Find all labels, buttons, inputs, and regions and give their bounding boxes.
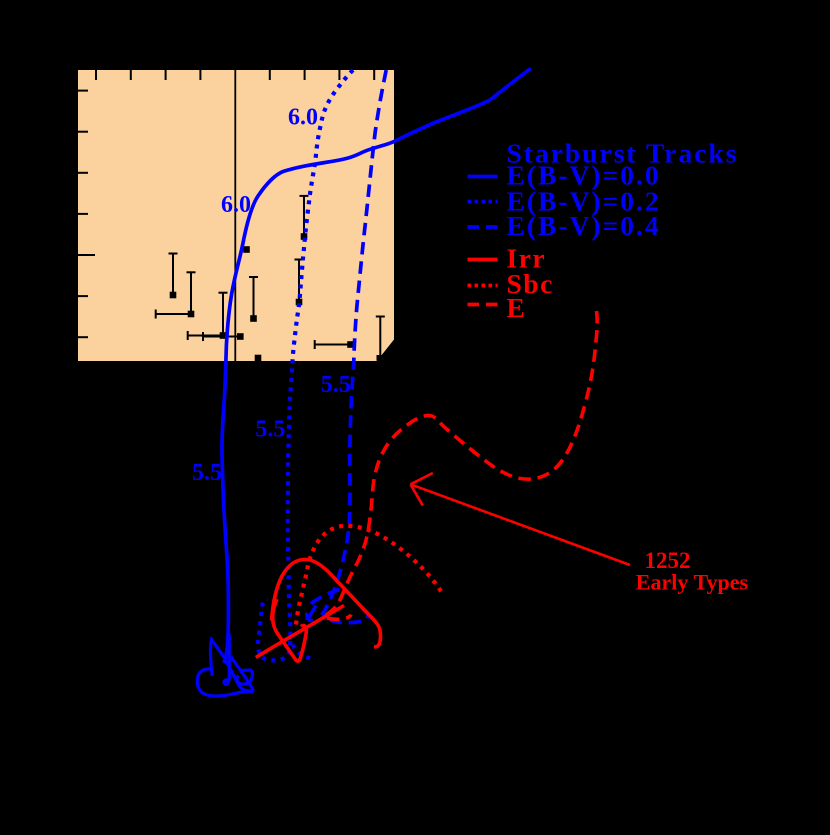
svg-text:5.5: 5.5 xyxy=(192,460,222,486)
svg-text:6.0: 6.0 xyxy=(288,105,318,131)
svg-text:5.5: 5.5 xyxy=(255,417,285,443)
svg-text:6.0: 6.0 xyxy=(221,192,251,218)
svg-text:Early Types: Early Types xyxy=(636,570,749,595)
svg-text:E: E xyxy=(507,292,527,323)
svg-text:5.5: 5.5 xyxy=(321,372,351,398)
svg-text:E(B-V)=0.4: E(B-V)=0.4 xyxy=(507,210,661,241)
